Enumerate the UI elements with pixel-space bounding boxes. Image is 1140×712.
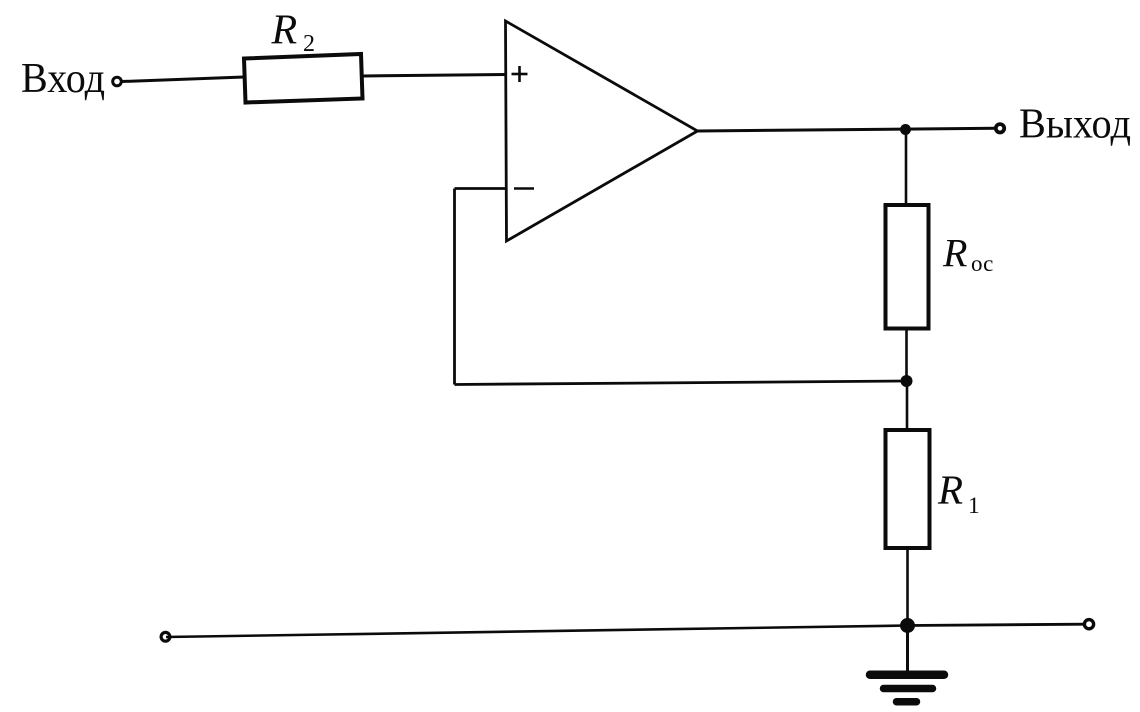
node ground junction <box>900 618 915 633</box>
label Roc <box>942 231 993 277</box>
op-amp U1 <box>506 21 698 241</box>
plus sign <box>512 66 528 82</box>
svg-text:R: R <box>271 8 298 54</box>
node feedback junction <box>901 375 913 387</box>
right terminal <box>1084 620 1093 629</box>
wire node to R1 <box>906 381 909 431</box>
svg-text:Выход: Выход <box>1019 102 1131 148</box>
wire R2 to op-amp + <box>363 75 507 77</box>
svg-text:1: 1 <box>968 493 980 519</box>
wire op-amp output <box>698 128 997 131</box>
node output junction <box>900 124 911 135</box>
input terminal <box>113 77 122 86</box>
wire feedback vertical <box>453 189 456 385</box>
resistor Roc <box>886 205 929 329</box>
svg-text:R: R <box>942 231 967 276</box>
label R2 <box>271 8 316 58</box>
resistor R1 <box>886 430 930 548</box>
minus sign <box>514 187 534 190</box>
left terminal <box>161 632 170 641</box>
svg-text:Вход: Вход <box>21 56 105 102</box>
ground <box>870 626 944 702</box>
svg-text:2: 2 <box>303 31 315 57</box>
wire node to Roc <box>905 130 908 207</box>
wire feedback to minus input <box>455 187 507 190</box>
svg-text:ос: ос <box>971 251 993 276</box>
wire input to R2 <box>122 77 244 82</box>
svg-text:R: R <box>937 467 963 513</box>
node Вход label <box>21 56 105 102</box>
wire bottom rail right <box>908 624 1086 625</box>
wire bottom rail left <box>166 626 908 638</box>
label R1 <box>937 467 980 520</box>
wire feedback horizontal <box>455 381 907 385</box>
output terminal <box>996 124 1004 132</box>
wire Roc to feedback node <box>905 329 908 382</box>
wire R1 to ground node <box>906 548 909 626</box>
node Выход label <box>1019 102 1131 148</box>
resistor R2 <box>244 54 363 103</box>
